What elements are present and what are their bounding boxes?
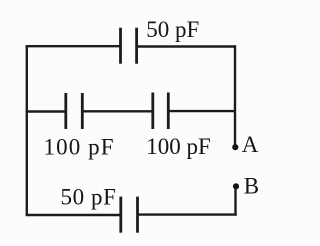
- svg-text:100 pF: 100 pF: [44, 134, 115, 159]
- capacitor C2 (100 pF, middle branch left): [66, 93, 83, 129]
- capacitor C4 (50 pF, bottom branch): [121, 197, 138, 233]
- wire: left vertical bus: [26, 45, 28, 216]
- wire: right vertical lower (node B to bottom branch): [234, 186, 236, 215]
- wire: right vertical upper (to node A): [234, 45, 236, 145]
- node A terminal dot: [232, 144, 238, 150]
- capacitor C3 (100 pF, middle branch right): [153, 93, 169, 130]
- wire: middle branch left segment: [26, 110, 66, 112]
- wire: top branch right segment: [137, 45, 235, 47]
- svg-text:B: B: [244, 173, 259, 198]
- svg-text:50 pF: 50 pF: [146, 17, 199, 42]
- svg-text:A: A: [242, 132, 259, 157]
- wire: bottom branch left segment: [26, 214, 121, 216]
- wire: bottom branch right segment: [138, 213, 237, 215]
- capacitor C1 (50 pF, top branch): [121, 28, 137, 64]
- node B terminal dot: [233, 183, 239, 189]
- wire: middle branch center segment: [82, 110, 153, 112]
- wire: top branch left segment: [26, 45, 121, 47]
- svg-text:50 pF: 50 pF: [61, 184, 117, 209]
- svg-text:100 pF: 100 pF: [146, 134, 211, 159]
- wire: middle branch right segment: [168, 110, 235, 112]
